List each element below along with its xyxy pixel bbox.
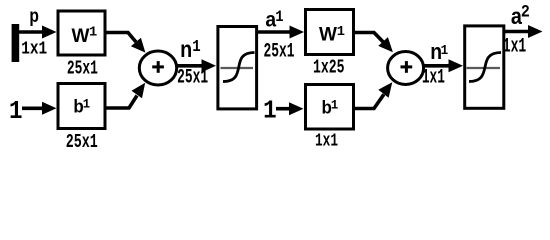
svg-text:1x1: 1x1 <box>315 132 338 152</box>
svg-text:1x1: 1x1 <box>21 40 47 60</box>
svg-text:p: p <box>29 4 39 26</box>
svg-text:1: 1 <box>263 98 277 127</box>
svg-text:25x1: 25x1 <box>264 39 295 62</box>
svg-text:25x1: 25x1 <box>66 131 98 153</box>
svg-text:1x25: 1x25 <box>313 56 345 78</box>
svg-text:1x1: 1x1 <box>422 67 445 90</box>
svg-text:1x1: 1x1 <box>503 36 527 59</box>
svg-text:25x1: 25x1 <box>177 67 208 90</box>
svg-text:25x1: 25x1 <box>67 58 98 80</box>
svg-text:1: 1 <box>9 98 23 127</box>
